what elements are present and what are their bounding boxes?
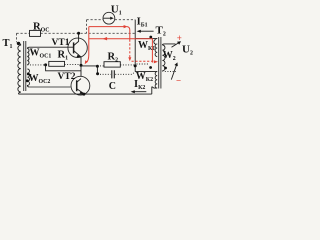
svg-text:C: C: [109, 81, 116, 92]
svg-text:U2: U2: [182, 43, 193, 56]
svg-text:IБ1: IБ1: [137, 17, 148, 29]
svg-text:WОС2: WОС2: [29, 73, 51, 85]
svg-text:U1: U1: [111, 3, 122, 16]
svg-text:R1: R1: [58, 50, 69, 62]
svg-text:VT2: VT2: [58, 72, 76, 82]
svg-text:RОС: RОС: [33, 22, 50, 34]
svg-text:+: +: [177, 33, 182, 43]
svg-text:−: −: [176, 76, 181, 86]
svg-text:WОС1: WОС1: [30, 48, 52, 60]
svg-text:T1: T1: [3, 38, 13, 50]
svg-text:R2: R2: [108, 52, 119, 64]
svg-text:T2: T2: [156, 25, 166, 38]
svg-text:VT1: VT1: [52, 38, 70, 48]
svg-text:WК2: WК2: [136, 71, 153, 83]
svg-text:W2: W2: [163, 50, 176, 62]
